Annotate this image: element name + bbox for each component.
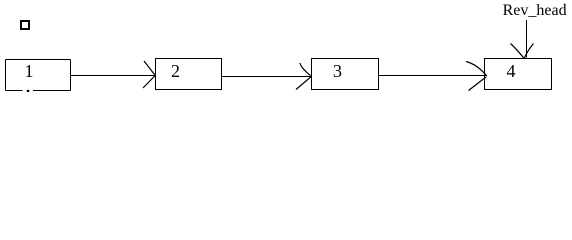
dot under box 1 [27, 90, 30, 92]
node box 4 [485, 59, 552, 90]
wire: box 3 to box 4 [378, 75, 486, 77]
svg-text:3: 3 [333, 61, 342, 81]
node box 1 [6, 60, 71, 91]
arrowhead into box 2 [143, 61, 155, 88]
svg-text:4: 4 [507, 61, 516, 81]
down arrowhead barbs [511, 44, 534, 59]
wire: down arrow shaft to node box 4 [526, 20, 528, 58]
svg-text:Rev_head: Rev_head [503, 2, 567, 19]
node box 2 [156, 59, 222, 90]
wire: box 2 to box 3 [221, 76, 311, 78]
svg-text:2: 2 [171, 61, 180, 81]
arrowhead into box 3 [296, 63, 311, 90]
wire: box 1 to box 2 [70, 75, 155, 77]
bullet square [20, 20, 30, 30]
node box 3 [312, 59, 379, 90]
arrowhead into box 4 [466, 62, 487, 91]
svg-text:1: 1 [25, 61, 34, 81]
